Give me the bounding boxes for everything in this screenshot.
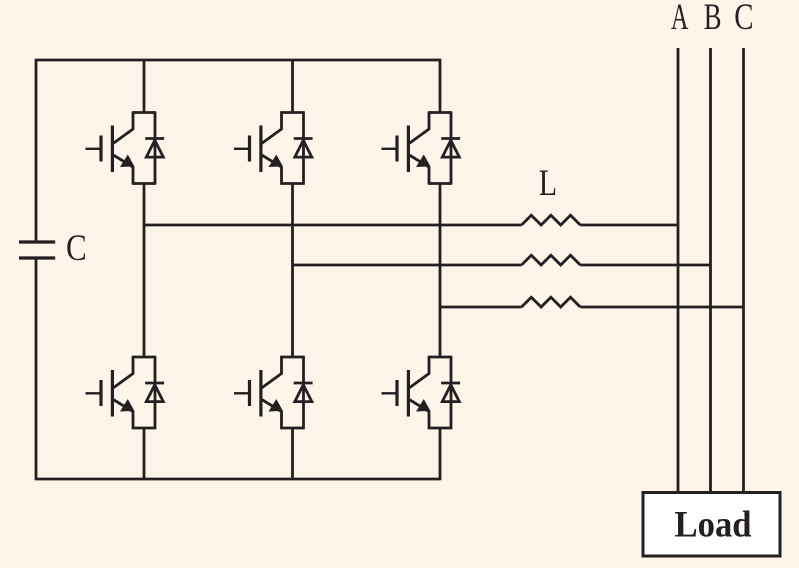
wire: left DC rail upper	[35, 59, 38, 242]
wire: leg 3 upper	[439, 59, 442, 113]
transistor Q1 (top, leg 1)	[86, 111, 165, 185]
wire: phase C output lead left	[440, 306, 522, 309]
wire: leg 3 lower	[439, 428, 442, 480]
wire: leg 1 middle	[143, 184, 146, 358]
wire: left DC rail lower	[35, 258, 38, 480]
wire: leg 2 middle	[291, 184, 294, 358]
wire: phase A output lead left	[144, 224, 522, 227]
wire: leg 2 lower	[291, 428, 294, 479]
wire: phase B vertical line	[709, 48, 712, 493]
wire: phase C output lead right	[580, 306, 743, 309]
transistor Q6 (bottom, leg 3)	[382, 356, 461, 430]
wire: phase B output lead right	[580, 264, 710, 267]
wire: phase B output lead left	[293, 264, 522, 267]
wire: leg 1 upper	[143, 60, 146, 113]
wire: leg 2 upper	[291, 60, 294, 113]
wire: leg 1 lower	[143, 428, 146, 479]
wire: phase A output lead right	[580, 224, 678, 227]
transistor Q4 (bottom, leg 1)	[86, 356, 165, 430]
wire: phase A vertical line	[677, 48, 680, 493]
wire: bottom DC bus	[36, 478, 440, 481]
wire: top DC bus	[36, 59, 440, 62]
svg-text:C: C	[734, 0, 753, 38]
svg-text:L: L	[539, 163, 557, 204]
svg-text:A: A	[671, 0, 689, 37]
svg-text:B: B	[704, 0, 722, 37]
transistor Q3 (top, leg 3)	[382, 111, 461, 185]
capacitor C plates	[19, 242, 55, 258]
transistor Q2 (top, leg 2)	[234, 111, 313, 185]
wire: phase C vertical line	[742, 48, 745, 493]
load box	[643, 493, 780, 557]
inductor L phase A zigzag	[522, 215, 581, 225]
transistor Q5 (bottom, leg 2)	[234, 356, 313, 430]
inductor L phase C zigzag	[522, 297, 581, 307]
svg-text:C: C	[66, 229, 87, 269]
wire: leg 3 middle	[439, 184, 442, 358]
inductor L phase B zigzag	[522, 255, 581, 265]
svg-text:Load: Load	[675, 504, 752, 545]
